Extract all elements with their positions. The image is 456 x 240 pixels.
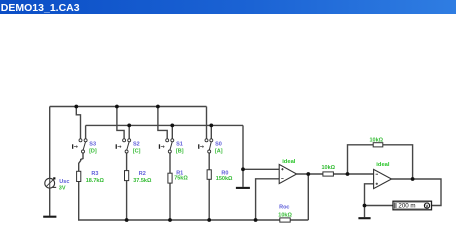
svg-text:37.5kΩ: 37.5kΩ [133,178,152,184]
svg-text:ideal: ideal [376,162,390,168]
svg-text:[C]: [C] [133,148,141,154]
svg-text:150kΩ: 150kΩ [216,176,233,182]
svg-text:75kΩ: 75kΩ [174,176,188,182]
svg-text:[A]: [A] [215,148,223,154]
svg-text:S1: S1 [176,141,183,147]
svg-text:3V: 3V [59,185,66,191]
svg-text:S3: S3 [89,141,96,147]
svg-text:R2: R2 [139,171,146,177]
svg-text:Usc: Usc [59,179,69,185]
svg-text:S2: S2 [133,141,140,147]
svg-text:200 m: 200 m [398,203,415,210]
svg-text:S0: S0 [215,141,222,147]
svg-text:[B]: [B] [176,148,184,154]
svg-text:DEMO13_1.CA3: DEMO13_1.CA3 [1,2,80,14]
svg-text:10kΩ: 10kΩ [322,165,336,171]
svg-text:10kΩ: 10kΩ [278,212,292,218]
svg-text:ideal: ideal [282,159,296,165]
svg-text:18.7kΩ: 18.7kΩ [86,178,105,184]
svg-text:10kΩ: 10kΩ [370,137,384,143]
svg-text:R3: R3 [91,171,98,177]
svg-text:[D]: [D] [89,148,97,154]
svg-text:Roc: Roc [279,205,289,211]
